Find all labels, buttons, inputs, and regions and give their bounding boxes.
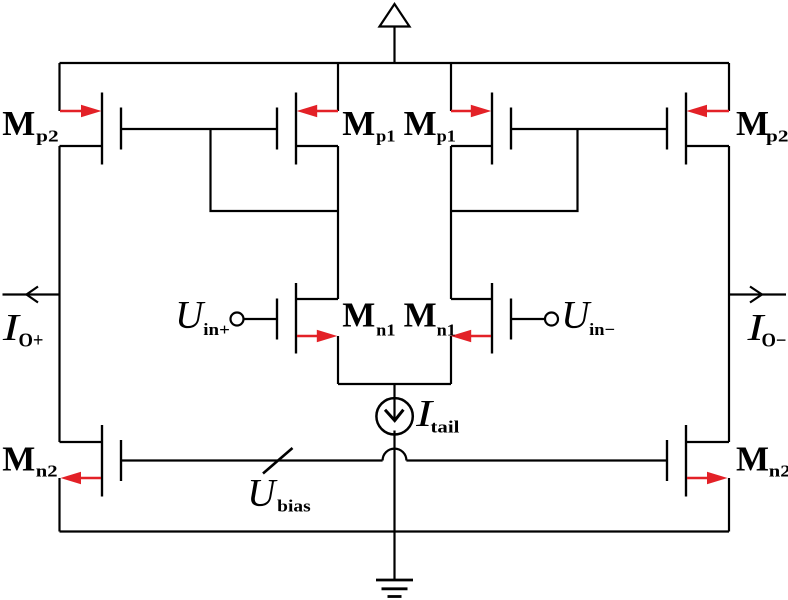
svg-text:M: M xyxy=(736,439,769,478)
svg-text:p1: p1 xyxy=(437,126,456,145)
svg-text:U: U xyxy=(561,294,592,337)
svg-text:bias: bias xyxy=(277,497,311,516)
svg-text:M: M xyxy=(342,104,375,143)
svg-text:M: M xyxy=(736,104,769,143)
svg-text:n2: n2 xyxy=(36,462,58,481)
svg-text:U: U xyxy=(247,471,278,514)
svg-text:M: M xyxy=(404,296,437,335)
svg-text:O−: O− xyxy=(762,331,787,352)
svg-text:M: M xyxy=(2,439,35,478)
svg-text:n1: n1 xyxy=(376,320,395,339)
svg-text:p2: p2 xyxy=(36,126,59,145)
svg-text:in+: in+ xyxy=(203,320,230,339)
svg-text:O+: O+ xyxy=(19,331,44,352)
svg-text:n2: n2 xyxy=(769,462,788,481)
svg-text:M: M xyxy=(342,296,375,335)
svg-text:U: U xyxy=(175,294,206,337)
svg-text:in−: in− xyxy=(589,320,615,339)
svg-text:M: M xyxy=(404,104,437,143)
svg-text:M: M xyxy=(2,104,35,143)
svg-text:tail: tail xyxy=(431,418,460,437)
svg-text:p2: p2 xyxy=(766,126,788,145)
svg-text:n1: n1 xyxy=(437,320,456,339)
svg-text:p1: p1 xyxy=(376,126,395,145)
